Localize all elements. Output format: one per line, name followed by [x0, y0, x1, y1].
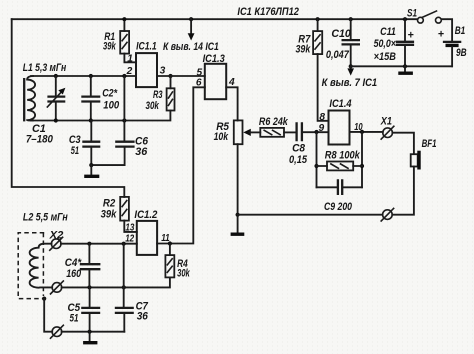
pin 11	[161, 233, 170, 244]
wire R7 to pin 8	[318, 54, 329, 121]
pin 10	[354, 122, 363, 133]
ground C11	[398, 66, 413, 73]
svg-text:8: 8	[319, 112, 325, 123]
pin 6	[196, 78, 202, 89]
wire top supply rail	[12, 18, 418, 20]
wire R1 to pin 1	[124, 54, 136, 63]
inductor L2 5,5 mGn	[23, 211, 68, 287]
resistor R6 24k	[259, 116, 289, 137]
wire R8 left branch	[314, 132, 318, 187]
svg-text:0,047: 0,047	[326, 49, 350, 61]
capacitor C4* 160	[65, 244, 101, 288]
node K vyv. 14 IC1 supply arrow	[163, 17, 219, 53]
wire tank2 top row to pin 12	[61, 242, 137, 246]
wire shield to X2 bottom contact	[44, 299, 52, 332]
wire bottom ground rail	[238, 214, 383, 216]
svg-text:C9 200: C9 200	[324, 201, 352, 213]
svg-text:L2 5,5 мГн: L2 5,5 мГн	[23, 211, 68, 223]
svg-text:IC1.1: IC1.1	[136, 40, 157, 52]
svg-text:3: 3	[160, 65, 166, 76]
IC element IC1.3 box	[203, 53, 227, 99]
pin 1	[127, 54, 133, 65]
wire tank1 top row to pin 2	[31, 74, 136, 78]
svg-text:51: 51	[71, 145, 79, 157]
svg-text:39k: 39k	[101, 208, 118, 220]
svg-text:×15В: ×15В	[374, 51, 397, 63]
resistor R1 39k	[103, 17, 129, 54]
switch S1	[407, 8, 441, 24]
connector X2 bottom contact	[50, 325, 64, 339]
capacitor C1 7-180 variable	[26, 76, 66, 145]
connector X2 top contact	[49, 230, 64, 251]
resistor R7 39k	[296, 17, 323, 55]
svg-text:4: 4	[228, 77, 235, 88]
capacitor C11 50,0x15V electrolytic	[374, 17, 415, 68]
svg-text:B1: B1	[455, 25, 466, 37]
svg-text:39k: 39k	[296, 44, 312, 56]
svg-text:36: 36	[137, 311, 148, 323]
svg-text:C2*: C2*	[102, 88, 118, 100]
wire minus rail	[351, 65, 452, 67]
wire left supply branch to R2	[12, 19, 125, 197]
svg-text:К выв. 7 IC1: К выв. 7 IC1	[322, 77, 378, 89]
svg-text:+: +	[408, 30, 414, 42]
wire X1 to BF1	[392, 133, 414, 154]
svg-text:100: 100	[103, 99, 119, 111]
svg-text:К выв. 14 IC1: К выв. 14 IC1	[163, 41, 219, 53]
svg-text:9: 9	[319, 123, 325, 134]
pin 13	[125, 222, 134, 233]
svg-text:9В: 9В	[456, 47, 467, 59]
svg-text:30k: 30k	[177, 268, 190, 280]
svg-text:30k: 30k	[146, 100, 160, 112]
svg-text:R6 24k: R6 24k	[259, 116, 289, 128]
wire pin10 to X1	[350, 130, 383, 134]
ground main rail	[231, 215, 245, 235]
svg-text:L1 5,3 мГн: L1 5,3 мГн	[23, 62, 67, 74]
wire R8 right branch	[360, 132, 364, 187]
wire pin6 down to pin11	[157, 87, 205, 245]
wire tank2 bottom row	[62, 330, 125, 334]
capacitor C5 51	[68, 287, 101, 331]
pin 3	[160, 65, 166, 76]
wire pin12 node down to C7	[123, 244, 125, 308]
IC element IC1.2 box	[134, 209, 157, 255]
svg-text:IC1 К176ЛП12: IC1 К176ЛП12	[237, 6, 299, 18]
svg-text:C11: C11	[380, 26, 396, 38]
resistor R4 30k	[165, 244, 190, 280]
potentiometer R5 10k	[214, 120, 261, 144]
svg-text:0,15: 0,15	[289, 154, 308, 166]
svg-text:C10: C10	[331, 28, 351, 40]
title IC1 K176LP12	[237, 6, 299, 18]
connector X2 middle contact	[50, 280, 64, 294]
buzzer BF1	[411, 138, 437, 170]
wire R6 to C8	[284, 131, 296, 133]
pin 8	[319, 112, 325, 123]
IC element IC1.4 box	[329, 98, 352, 144]
svg-text:51: 51	[70, 312, 79, 324]
inductor L1 5,3 mGn	[23, 62, 67, 122]
svg-text:X1: X1	[380, 116, 392, 128]
wire pin2 node down to C6	[123, 76, 125, 141]
resistor R3 30k	[146, 74, 175, 112]
connector X1	[380, 116, 394, 140]
svg-text:39k: 39k	[103, 41, 117, 53]
battery B1 9V	[438, 19, 467, 66]
svg-text:13: 13	[125, 222, 134, 233]
svg-text:36: 36	[135, 146, 147, 158]
svg-text:IC1.2: IC1.2	[134, 209, 157, 221]
pin 4	[228, 77, 235, 88]
svg-text:+: +	[438, 28, 444, 40]
wire tank2 middle row to R4	[62, 277, 170, 289]
resistor R8 100k	[317, 150, 363, 171]
capacitor C8 0,15	[289, 122, 329, 166]
svg-text:10k: 10k	[214, 131, 229, 143]
wire pin3 to pin5	[157, 75, 205, 77]
wire R5 bottom to ground rail	[236, 144, 240, 217]
svg-text:7–180: 7–180	[26, 133, 53, 145]
shield box of L2 dashed	[18, 233, 46, 301]
svg-text:1: 1	[127, 54, 133, 65]
svg-text:C8: C8	[292, 142, 305, 154]
svg-text:50,0×: 50,0×	[374, 38, 396, 50]
IC element IC1.1 box	[136, 40, 157, 87]
capacitor C9 200	[317, 179, 363, 213]
svg-text:R8 100k: R8 100k	[325, 150, 361, 162]
pin 5	[197, 68, 203, 79]
connector X1 return contact	[381, 208, 395, 222]
wire tank1 bottom row to R3	[31, 111, 170, 123]
svg-text:IC1.3: IC1.3	[203, 53, 225, 65]
capacitor C6 36	[89, 136, 148, 168]
wire pin4 to R5	[226, 87, 237, 120]
pin 2	[126, 66, 133, 77]
ground tank2	[83, 332, 97, 343]
wire rail corner to BF1 bottom	[392, 167, 414, 215]
svg-text:IC1.4: IC1.4	[329, 98, 351, 110]
capacitor C10 0,047	[326, 17, 360, 66]
ground tank1	[84, 165, 99, 176]
svg-text:BF1: BF1	[422, 138, 437, 150]
capacitor C3 51	[69, 121, 100, 166]
capacitor C7 36	[115, 301, 149, 332]
svg-text:160: 160	[66, 268, 81, 280]
pin 12	[125, 234, 134, 245]
capacitor C2* 100	[81, 76, 119, 121]
node K vyv. 7 IC1 arrow	[322, 64, 378, 89]
wire R2 to pin 13	[124, 221, 137, 232]
svg-text:S1: S1	[407, 8, 417, 20]
resistor R2 39k	[101, 197, 129, 221]
svg-text:11: 11	[161, 233, 170, 244]
pin 9	[319, 123, 325, 134]
